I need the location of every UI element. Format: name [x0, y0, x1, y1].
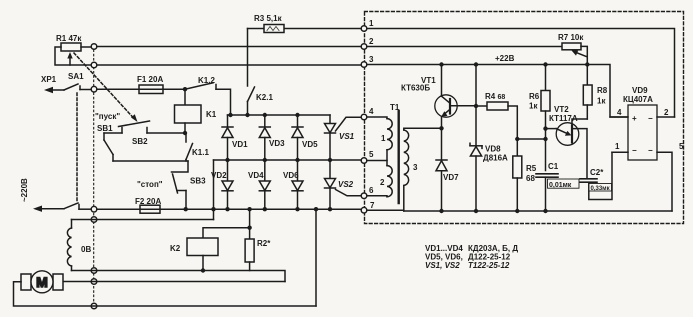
svg-text:5: 5 [679, 142, 684, 151]
svg-text:~220В: ~220В [20, 178, 29, 202]
rectifier bridge VD9 KTs407A [628, 105, 657, 160]
transformer T1 winding 3 secondary [404, 128, 442, 211]
motor M1 [21, 271, 63, 293]
transformer T1 winding 1 [367, 117, 392, 161]
node junction after F1 [183, 87, 187, 91]
label XP1 [41, 75, 57, 84]
svg-text:VS2: VS2 [338, 180, 354, 189]
label R7 10k [558, 33, 584, 42]
node VD8 top on bus [474, 62, 478, 66]
wire mid rail drop to F2 line [213, 160, 215, 220]
label pin5 [679, 142, 684, 151]
diode VD4 [259, 160, 270, 209]
svg-text:K1.1: K1.1 [192, 148, 209, 157]
wire rectifier mid rail [214, 159, 362, 161]
svg-text:1: 1 [381, 134, 386, 143]
label R8 1k [597, 97, 606, 106]
pushbutton SB2 [104, 121, 150, 133]
switch SA1 pole 1 [64, 84, 91, 90]
label R6 1k [529, 102, 538, 111]
pushbutton SB3 stop [172, 161, 189, 209]
terminal 4 [361, 114, 367, 120]
wire K2 top [203, 228, 250, 238]
label R4 68 [485, 92, 505, 101]
wire VT1 collector to bus [441, 65, 443, 97]
label SB1 [97, 124, 113, 133]
label SA1 [68, 72, 84, 81]
label winding 2 [380, 178, 385, 187]
mechanical link SA1 dashed [76, 93, 78, 202]
label K1 [206, 110, 217, 119]
connector circle on K2 bottom line [91, 268, 97, 274]
svg-text:R1 47к: R1 47к [56, 34, 82, 43]
node SB3 bottom [184, 207, 188, 211]
svg-text:2: 2 [664, 108, 669, 117]
wire VD8 column [475, 65, 477, 146]
svg-text:VD3: VD3 [269, 139, 285, 148]
transformer T1 core [398, 111, 400, 203]
relay coil K2 [187, 238, 218, 271]
label +22V [495, 54, 515, 63]
node VD4 bottom [263, 207, 267, 211]
wire line 3 to terminal 3 [97, 64, 361, 66]
resistor R1 47k potentiometer [55, 43, 91, 65]
svg-text:R7 10к: R7 10к [558, 33, 584, 42]
wire line 2 to terminal 2 [97, 46, 361, 48]
label K1.2 [198, 76, 215, 85]
resistor R2* [245, 228, 254, 271]
label VD4 [248, 171, 264, 180]
svg-text:Т122-25-12: Т122-25-12 [468, 261, 510, 270]
diode VD6 [292, 160, 303, 209]
wire bottom bus F2 to terminal 7 [160, 208, 361, 210]
terminal 7 [361, 207, 367, 213]
node VD3 mid [263, 158, 267, 162]
label VD9 plus topleft [632, 114, 637, 123]
svg-text:R3 5,1к: R3 5,1к [254, 14, 283, 23]
node VD7 bottom [439, 209, 443, 213]
label terminal 6 [369, 186, 374, 195]
zener diode VD8 D816A [470, 143, 482, 211]
label R1 [56, 34, 82, 43]
wire pin2 [657, 116, 675, 118]
dashed enclosure control unit [365, 12, 684, 224]
node mid rail drop on bottom bus [211, 207, 215, 211]
label VS1 [339, 132, 355, 141]
label F1 20A [137, 75, 163, 84]
svg-text:VT2: VT2 [554, 105, 569, 114]
svg-text:"пуск": "пуск" [95, 112, 120, 121]
svg-text:−: − [648, 114, 653, 123]
label stop [137, 180, 163, 189]
label K2 [170, 244, 181, 253]
relay contact K2.1 [248, 87, 255, 115]
wire pin4 [610, 116, 628, 118]
svg-text:3: 3 [413, 163, 418, 172]
svg-text:K2: K2 [170, 244, 181, 253]
inductor OV field winding [67, 228, 71, 266]
node K2.1 on top bus [245, 113, 249, 117]
diode VD5 [292, 115, 303, 160]
node VD5 mid [295, 158, 299, 162]
label terminal 4 [369, 107, 374, 116]
diode VD1 [222, 115, 233, 160]
svg-text:M: M [36, 274, 48, 290]
diode VD2 [222, 160, 233, 209]
label K1.1 [192, 148, 209, 157]
transformer T1 winding 2 [367, 161, 392, 197]
note diodes VD5 VD6 [425, 253, 511, 262]
node VS1 mid [328, 158, 332, 162]
node VD5 top [295, 113, 299, 117]
resistor R3 5,1k [264, 25, 284, 33]
node R4 left [474, 104, 478, 108]
node VD6 bottom [295, 207, 299, 211]
thyristor VS1 [325, 115, 362, 160]
svg-text:КТ630Б: КТ630Б [401, 84, 430, 93]
svg-text:0,01мк: 0,01мк [549, 182, 572, 189]
node K1.2 drop on top bus [228, 113, 232, 117]
svg-text:68: 68 [526, 174, 535, 183]
wire bottom to bus [315, 209, 317, 306]
node R4 R5 junction [515, 137, 519, 141]
relay contact K1.1 [186, 133, 193, 161]
wire line1 inside box [367, 29, 675, 118]
label terminal 2 [369, 37, 374, 46]
capacitor C2* 0,33mk [580, 152, 612, 199]
svg-text:VD9: VD9 [632, 86, 648, 95]
diode VD7 [436, 160, 447, 211]
svg-text:Т1: Т1 [390, 103, 400, 112]
capacitor C1 0,01mk [536, 174, 558, 211]
terminal 5 [361, 158, 367, 164]
wire VT1 emitter to VD7 [441, 117, 443, 160]
svg-text:SA1: SA1 [68, 72, 84, 81]
label R8 [597, 86, 608, 95]
wire SA1 pole1 to fuse [52, 89, 64, 91]
svg-text:0В: 0В [81, 245, 91, 254]
connector arrow XP1 pole 1 [44, 87, 53, 93]
svg-text:"стоп": "стоп" [137, 180, 163, 189]
wire VT2 emitter [546, 128, 557, 130]
svg-text:K1.2: K1.2 [198, 76, 215, 85]
terminal 3 [361, 62, 367, 68]
fuse F2 20A [140, 205, 160, 213]
label pin1 [615, 142, 620, 151]
node K2 R2 top [247, 226, 251, 230]
svg-text:7: 7 [370, 201, 375, 210]
connector circle on line2 [91, 44, 97, 50]
label C1 value [549, 182, 572, 189]
svg-text:C2*: C2* [590, 168, 604, 177]
svg-text:−: − [632, 146, 637, 155]
svg-text:SB1: SB1 [97, 124, 113, 133]
resistor R7 10k trimmer [562, 43, 587, 65]
wire line 1 with R3 [248, 28, 362, 30]
wire line2 inside box [367, 46, 561, 48]
node R6 bottom emitter [543, 126, 547, 130]
svg-text:K2.1: K2.1 [256, 93, 273, 102]
svg-text:+: + [632, 114, 637, 123]
diode VD3 [259, 115, 270, 160]
label R5 [526, 164, 537, 173]
resistor R5 68 [513, 139, 522, 211]
svg-text:4: 4 [369, 107, 374, 116]
svg-text:VS1, VS2: VS1, VS2 [425, 261, 460, 270]
value frame C1 [548, 179, 580, 188]
svg-text:R8: R8 [597, 86, 608, 95]
node C1 top [543, 137, 547, 141]
wire R4R5 node to R6C1 column [517, 138, 545, 140]
node K2 bottom [201, 268, 205, 272]
connector circle on SA1 line [91, 86, 97, 92]
svg-text:1: 1 [615, 142, 620, 151]
label KTs407A [623, 95, 653, 104]
label VD3 [269, 139, 285, 148]
svg-text:K1: K1 [206, 110, 217, 119]
boundary dotted line [93, 50, 95, 306]
svg-text:1к: 1к [597, 97, 606, 106]
svg-text:5: 5 [369, 150, 374, 159]
label D816A [483, 154, 508, 163]
terminal 6 [361, 193, 367, 199]
svg-text:Д816А: Д816А [483, 154, 508, 163]
connector circle on motor line [91, 279, 97, 285]
svg-text:VD4: VD4 [248, 171, 264, 180]
label VD9 minus bottomright [648, 146, 653, 155]
label terminal 1 [369, 19, 374, 28]
wire pin5 [657, 152, 672, 211]
svg-text:VD8: VD8 [485, 145, 501, 154]
mechanical link R1 to SB dashed [74, 53, 134, 119]
label C2 value [591, 186, 610, 192]
label KT117A [549, 114, 578, 123]
node VS2 bottom [328, 207, 332, 211]
svg-text:C1: C1 [548, 162, 559, 171]
label T1 [390, 103, 400, 112]
label R3 [254, 14, 283, 23]
relay coil K1 [175, 89, 202, 133]
svg-text:F2 20A: F2 20A [135, 197, 161, 206]
svg-text:2: 2 [369, 37, 374, 46]
label VD6 [283, 171, 299, 180]
node VT1 collector on bus [439, 62, 443, 66]
label 68 [526, 174, 535, 183]
wire SB1 bottom to K1.1 [113, 160, 188, 162]
svg-text:SB2: SB2 [132, 137, 148, 146]
wire +22V bus [367, 65, 628, 118]
label OV [81, 245, 91, 254]
connector circle on OV line [91, 217, 97, 223]
wire pin1 [612, 151, 628, 153]
svg-text:0,33мк: 0,33мк [591, 186, 610, 192]
label VD2 [211, 171, 227, 180]
svg-text:VD7: VD7 [443, 173, 459, 182]
resistor R8 1k [583, 65, 592, 120]
node motor return on bus [314, 207, 318, 211]
connector circle on bottom line [91, 303, 97, 309]
fuse F1 20A [139, 85, 185, 94]
node on bottom bus K2 branch [247, 207, 251, 211]
label VD1 [232, 140, 248, 149]
svg-text:VD5: VD5 [302, 140, 318, 149]
label winding 1 [381, 134, 386, 143]
svg-text:+22В: +22В [495, 54, 515, 63]
label SB3 [190, 177, 206, 186]
node C1 bottom [543, 209, 547, 213]
wire motor left to bottom [14, 282, 317, 306]
label F2 20A [135, 197, 161, 206]
svg-text:6: 6 [369, 186, 374, 195]
svg-text:−: − [648, 146, 653, 155]
svg-text:F1 20A: F1 20A [137, 75, 163, 84]
thyristor VS2 [325, 160, 362, 209]
transistor VT2 KT117A unijunction [556, 119, 587, 178]
label K2.1 [256, 93, 273, 102]
label VD7 [443, 173, 459, 182]
resistor R6 1k [541, 65, 550, 171]
label SB2 [132, 137, 148, 146]
svg-text:КТ117А: КТ117А [549, 114, 578, 123]
wire R3 drop to K2.1 [247, 29, 249, 87]
label terminal 7 [370, 201, 375, 210]
label terminal 5 [369, 150, 374, 159]
wire control ground rail [367, 209, 672, 212]
label VS2 [338, 180, 354, 189]
svg-text:R6: R6 [529, 92, 540, 101]
wire OV bottom [71, 266, 73, 271]
wire bottom bus to F2 [97, 208, 140, 210]
node VD8 bottom [474, 209, 478, 213]
node R6 top on bus [543, 62, 547, 66]
pushbutton SB1 [104, 133, 113, 161]
label pusk [95, 112, 120, 121]
label pin4 [617, 108, 622, 117]
label VT2 [554, 105, 569, 114]
label VT1 [421, 76, 436, 85]
svg-text:R5: R5 [526, 164, 537, 173]
svg-text:VD1: VD1 [232, 140, 248, 149]
relay contact K1.2 [185, 83, 231, 115]
node K1 coil bottom [183, 131, 187, 135]
svg-text:1: 1 [369, 19, 374, 28]
svg-text:VD6: VD6 [283, 171, 299, 180]
label R6 [529, 92, 540, 101]
wire K2R2 node to bus [249, 209, 251, 228]
node VT1 emitter winding3 [439, 126, 443, 130]
label 220V mains [20, 178, 29, 202]
wire SB2 right [147, 132, 185, 134]
connector arrow XP1 pole 2 [33, 206, 42, 212]
svg-text:2: 2 [380, 178, 385, 187]
svg-text:VS1: VS1 [339, 132, 355, 141]
label terminal 3 [369, 55, 374, 64]
wire OV top line [72, 220, 214, 229]
node VD1 mid [225, 158, 229, 162]
connector circle on F2 line [91, 206, 97, 212]
node R7 drop on bus [585, 62, 589, 66]
terminal 2 [361, 44, 367, 50]
svg-text:3: 3 [369, 55, 374, 64]
svg-text:1к: 1к [529, 102, 538, 111]
wire line SA1 to F1 [97, 88, 139, 90]
label C1 [548, 162, 559, 171]
svg-text:4: 4 [617, 108, 622, 117]
label VD8 [485, 145, 501, 154]
terminal 1 [361, 26, 367, 32]
label KT630B [401, 84, 430, 93]
wire rectifier top bus [228, 114, 331, 116]
note diodes VD1-VD4 [425, 244, 518, 253]
transistor VT1 KT630B [435, 95, 476, 117]
wire B motor brush line [63, 281, 285, 283]
connector circle on line3 [91, 62, 97, 68]
resistor R4 68 [476, 102, 517, 139]
label C2* [590, 168, 604, 177]
node R5 bottom [515, 209, 519, 213]
label pin2 [664, 108, 669, 117]
node VD3 top [263, 113, 267, 117]
note thyristors VS1 VS2 [425, 261, 510, 270]
label VD9 minus topright [648, 114, 653, 123]
label winding 3 [413, 163, 418, 172]
label R2* [257, 239, 271, 248]
svg-text:XP1: XP1 [41, 75, 57, 84]
svg-text:КЦ407А: КЦ407А [623, 95, 653, 104]
label VD9 [632, 86, 648, 95]
svg-text:SB3: SB3 [190, 177, 206, 186]
label VD9 minus bottomleft [632, 146, 637, 155]
svg-text:R2*: R2* [257, 239, 271, 248]
wire A K2-R2 bottom line [72, 271, 286, 282]
svg-text:R4 68: R4 68 [485, 92, 505, 101]
switch SA1 pole 2 [42, 203, 91, 209]
node VD2 bottom [225, 207, 229, 211]
svg-text:VD2: VD2 [211, 171, 227, 180]
label VD5 [302, 140, 318, 149]
value frame C2 [589, 184, 612, 192]
